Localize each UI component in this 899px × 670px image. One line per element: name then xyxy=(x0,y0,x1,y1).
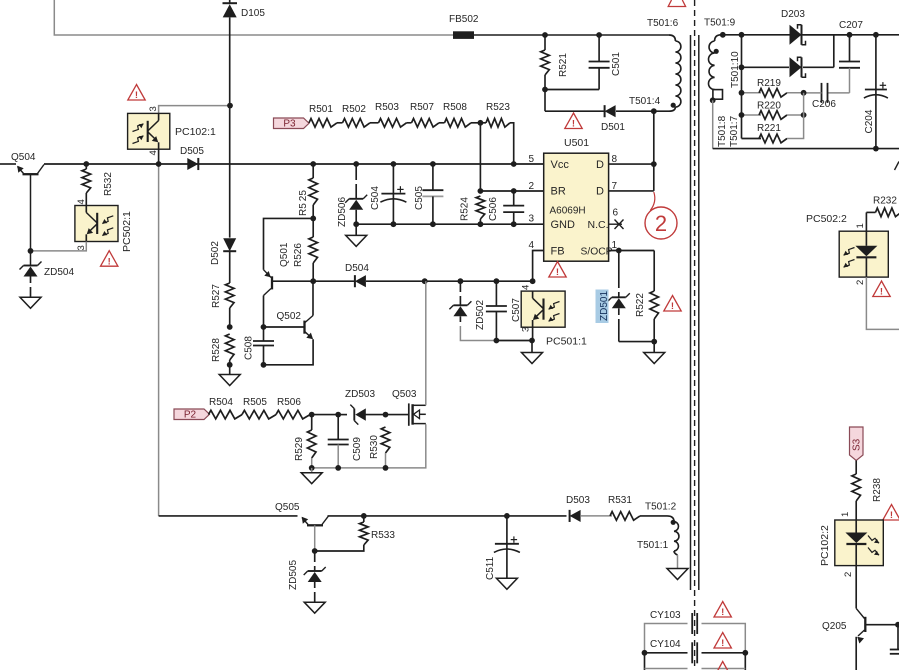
resistor R532 xyxy=(83,161,89,167)
warning triangle bottom partial xyxy=(715,662,730,670)
svg-text:D502: D502 xyxy=(210,241,221,265)
node CY104 right xyxy=(742,650,748,656)
node R533 top xyxy=(361,513,367,519)
node C508 bottom xyxy=(261,362,267,368)
svg-text:!: ! xyxy=(572,119,575,130)
svg-text:T501:9: T501:9 xyxy=(704,18,736,29)
svg-text:C504: C504 xyxy=(370,186,381,210)
ferrite bead FB502 xyxy=(453,31,474,39)
node R523 to Vcc junction xyxy=(511,161,517,167)
wire Q205 base xyxy=(865,624,898,626)
svg-text:R232: R232 xyxy=(873,196,897,207)
svg-text:!: ! xyxy=(721,607,724,618)
warning triangle near D501 xyxy=(565,113,582,128)
wire FB node to ZD502/C507/PC501 xyxy=(460,280,532,282)
resistor R530 xyxy=(381,427,390,453)
winding phase dot T501:2 xyxy=(671,520,676,525)
svg-text:D504: D504 xyxy=(345,263,369,274)
node R527 bottom xyxy=(227,324,233,330)
diode D105 xyxy=(229,0,231,3)
node R524 bottom xyxy=(478,221,484,227)
node C504 bottom xyxy=(391,221,397,227)
svg-text:C206: C206 xyxy=(812,99,836,110)
node C509 bottom xyxy=(335,465,341,471)
node pin8 junction xyxy=(651,161,657,167)
svg-text:2: 2 xyxy=(655,211,667,236)
svg-text:R508: R508 xyxy=(443,102,467,113)
node R220 right xyxy=(801,112,807,118)
svg-text:D505: D505 xyxy=(180,146,204,157)
flag S3 xyxy=(850,427,864,461)
wire R522/ZD501 bottom xyxy=(619,341,654,343)
optocoupler PC102:1 xyxy=(128,113,170,149)
resistor R238 xyxy=(852,474,861,501)
svg-text:ZD505: ZD505 xyxy=(288,560,299,590)
svg-text:PC102:2: PC102:2 xyxy=(819,525,831,566)
svg-text:R523: R523 xyxy=(486,102,510,113)
zener ZD505 xyxy=(314,551,316,562)
svg-text:PC102:1: PC102:1 xyxy=(175,126,216,138)
node Q205 base right xyxy=(895,622,899,628)
resistor R533 xyxy=(363,516,365,522)
capacitor C507 xyxy=(495,281,497,306)
svg-text:4: 4 xyxy=(529,240,535,251)
wire T501:10 vertical xyxy=(741,35,743,139)
wire gate lead Q503 xyxy=(386,414,409,416)
svg-text:!: ! xyxy=(721,638,724,649)
warning triangle top of core xyxy=(668,0,685,7)
svg-text:R524: R524 xyxy=(460,197,471,221)
svg-text:ZD501: ZD501 xyxy=(599,291,610,321)
node R528 bottom xyxy=(227,362,233,368)
svg-text:R501: R501 xyxy=(309,104,333,115)
svg-text:P3: P3 xyxy=(283,119,296,130)
capacitor C508 xyxy=(263,327,265,341)
svg-text:C509: C509 xyxy=(352,437,363,461)
snubber resistor R521 xyxy=(542,32,548,38)
wire tap to D203 lower diode xyxy=(742,66,790,68)
svg-text:D501: D501 xyxy=(601,122,625,133)
ground below ZD504 xyxy=(20,297,41,308)
resistor R525 xyxy=(312,164,314,178)
svg-text:C505: C505 xyxy=(414,186,425,210)
node CY104 left xyxy=(642,650,648,656)
svg-text:C508: C508 xyxy=(244,336,255,360)
node R219 left xyxy=(739,90,745,96)
secondary bottom rail xyxy=(713,148,899,150)
wire U501 pin4 FB xyxy=(533,251,544,282)
callout circle 2 xyxy=(650,192,655,211)
svg-text:C506: C506 xyxy=(488,197,499,221)
svg-text:R221: R221 xyxy=(757,123,781,134)
svg-text:C507: C507 xyxy=(511,298,522,322)
zener ZD506 xyxy=(355,164,357,180)
ground below R522 xyxy=(653,342,655,353)
node ZD503 left junction xyxy=(335,412,341,418)
warning triangle below PC502:2 xyxy=(873,281,890,297)
svg-text:!: ! xyxy=(880,287,883,298)
svg-text:R522: R522 xyxy=(635,293,646,317)
svg-text:T501:7: T501:7 xyxy=(729,115,740,147)
resistor R528 xyxy=(225,334,234,360)
node ZD506 top junction xyxy=(353,161,359,167)
svg-text:3: 3 xyxy=(148,106,159,111)
capacitor C505 xyxy=(432,164,434,190)
svg-text:!: ! xyxy=(556,267,559,278)
flag P3 xyxy=(274,118,310,129)
winding tap square T501:8 xyxy=(713,90,723,100)
svg-text:R528: R528 xyxy=(211,338,222,362)
node R521 bottom xyxy=(542,87,548,93)
wire PC502:2 pin2 xyxy=(866,277,899,329)
svg-text:4: 4 xyxy=(148,150,159,155)
node ZD502 top xyxy=(458,278,464,284)
svg-text:4: 4 xyxy=(521,285,532,290)
node R529 bottom xyxy=(309,465,315,471)
node main rail x159 xyxy=(156,161,162,167)
ground below T501:1 xyxy=(667,569,688,580)
svg-text:5: 5 xyxy=(529,154,535,165)
svg-text:ZD504: ZD504 xyxy=(44,267,74,278)
node R530 bottom xyxy=(383,465,389,471)
optocoupler PC502:2 xyxy=(839,231,888,277)
svg-text:R507: R507 xyxy=(410,102,434,113)
capacitor C506 xyxy=(513,191,515,206)
svg-text:FB: FB xyxy=(551,245,565,257)
svg-text:T501:4: T501:4 xyxy=(629,96,661,107)
node R525 bottom xyxy=(310,216,316,222)
zener ZD501 xyxy=(618,251,620,289)
warning triangle CY104 xyxy=(714,633,731,649)
node ZD503 right junction xyxy=(383,412,389,418)
capacitor C511 xyxy=(504,513,510,519)
svg-text:GND: GND xyxy=(551,219,576,231)
svg-text:Vcc: Vcc xyxy=(551,159,570,171)
svg-text:3: 3 xyxy=(76,245,87,250)
svg-text:D: D xyxy=(596,159,604,171)
node C204 bottom xyxy=(873,146,879,152)
svg-text:T501:1: T501:1 xyxy=(637,540,669,551)
wire PC102:1 pin3 to D105 net xyxy=(159,106,230,114)
wire R525 bottom to Q501 emitter xyxy=(264,218,314,269)
svg-text:D203: D203 xyxy=(781,9,805,20)
transformer core xyxy=(690,35,692,590)
GND rail to U501 pin3 xyxy=(356,223,544,225)
warning triangle near PC102:1 xyxy=(128,85,145,101)
svg-text:R531: R531 xyxy=(608,495,632,506)
svg-text:D503: D503 xyxy=(566,495,590,506)
svg-text:2: 2 xyxy=(529,181,535,192)
capacitor at right edge xyxy=(897,625,899,649)
capacitor C504 xyxy=(392,164,394,194)
flag P2 xyxy=(174,409,210,420)
resistor R529 xyxy=(311,415,313,430)
svg-text:U501: U501 xyxy=(564,137,589,149)
svg-text:3: 3 xyxy=(521,327,532,332)
wire Q505 line xyxy=(159,515,298,517)
warning triangle near PC102:2 xyxy=(883,505,899,521)
capacitor C204 xyxy=(875,35,877,90)
svg-text:PC501:1: PC501:1 xyxy=(546,336,587,348)
svg-text:!: ! xyxy=(135,90,138,101)
ground below R528 xyxy=(229,365,231,375)
svg-text:C207: C207 xyxy=(839,20,863,31)
svg-text:!: ! xyxy=(108,256,111,267)
node R525 top junction xyxy=(310,161,316,167)
wire U501 pin7 xyxy=(609,190,654,192)
node Q501 base junction xyxy=(310,278,316,284)
svg-text:Q503: Q503 xyxy=(392,389,417,400)
wire S3 to R238 xyxy=(855,461,857,475)
node C504 top junction xyxy=(391,161,397,167)
svg-text:T501:6: T501:6 xyxy=(647,18,679,29)
optocoupler PC502:1 xyxy=(75,206,118,242)
svg-text:1: 1 xyxy=(855,223,866,228)
wire U501 pin1 S/OCP xyxy=(609,250,655,252)
BR rail to U501 pin2 xyxy=(480,190,543,192)
wire junction vertical R508 to BR xyxy=(479,123,481,191)
svg-text:R506: R506 xyxy=(277,397,301,408)
svg-text:!: ! xyxy=(671,301,674,312)
svg-text:R504: R504 xyxy=(209,397,233,408)
svg-text:C511: C511 xyxy=(485,556,496,580)
main rail y164 xyxy=(0,163,16,165)
wire frame top-left xyxy=(54,0,453,35)
zener ZD504 xyxy=(24,265,38,267)
node R508/R523 junction xyxy=(478,120,484,126)
capacitor C509 xyxy=(337,415,339,440)
node C505 top junction xyxy=(430,161,436,167)
wire source rail Q503 xyxy=(312,424,426,468)
node Q505 base junction xyxy=(312,548,318,554)
warning triangle below PC502:1 xyxy=(101,251,118,266)
optocoupler PC102:2 xyxy=(835,520,884,566)
svg-text:Q502: Q502 xyxy=(277,311,302,322)
svg-text:R505: R505 xyxy=(243,397,267,408)
node T501:10 top xyxy=(739,32,745,38)
svg-text:CY104: CY104 xyxy=(650,639,681,650)
node T501:10 tap xyxy=(739,64,745,70)
pin6 N.C. stub with X xyxy=(609,223,622,225)
svg-text:R502: R502 xyxy=(342,104,366,115)
node C507 top xyxy=(494,278,500,284)
warning triangle near R522 xyxy=(664,296,681,312)
svg-text:Q505: Q505 xyxy=(275,502,300,513)
node T501:9 top xyxy=(720,32,726,38)
node C204 top xyxy=(873,32,879,38)
node ZD506 bottom xyxy=(353,221,359,227)
svg-text:ZD503: ZD503 xyxy=(345,389,375,400)
node D504/Q503 junction xyxy=(422,278,428,284)
svg-text:ZD506: ZD506 xyxy=(337,197,348,227)
wire C207 to C206 xyxy=(828,92,850,94)
svg-text:PC502:1: PC502:1 xyxy=(121,211,133,252)
svg-text:T501:10: T501:10 xyxy=(730,51,741,88)
node C207 top xyxy=(847,32,853,38)
svg-text:2: 2 xyxy=(855,280,866,285)
resistor R522 xyxy=(653,251,655,292)
svg-text:R529: R529 xyxy=(294,437,305,461)
svg-text:R503: R503 xyxy=(375,102,399,113)
svg-text:3: 3 xyxy=(529,214,535,225)
node Q504 base junction xyxy=(28,248,34,254)
ground below ZD505 xyxy=(304,602,325,613)
svg-text:T501:8: T501:8 xyxy=(717,115,728,147)
wire top rail FB502 to transformer xyxy=(474,34,669,36)
svg-text:C501: C501 xyxy=(611,52,622,76)
svg-text:R532: R532 xyxy=(103,172,114,196)
node R220 left xyxy=(739,112,745,118)
svg-text:PC502:2: PC502:2 xyxy=(806,213,847,225)
svg-text:D: D xyxy=(596,186,604,198)
svg-text:P2: P2 xyxy=(184,410,197,421)
wire secondary top rail xyxy=(723,34,899,36)
svg-text:A6069H: A6069H xyxy=(550,205,586,216)
node R219 right xyxy=(801,90,807,96)
node R506/R529 junction xyxy=(309,412,315,418)
svg-text:BR: BR xyxy=(551,186,566,198)
diode D203 lower xyxy=(790,57,802,77)
wire PC502:1 pin3 to Q504 base xyxy=(31,242,87,251)
wire snubber bottom xyxy=(545,89,599,91)
winding phase dot T501:9 xyxy=(714,49,719,54)
node R524 top junction xyxy=(478,188,484,194)
wire CY third row xyxy=(644,653,646,670)
node C506 top junction xyxy=(511,188,517,194)
node Q502 base junction xyxy=(261,324,267,330)
svg-text:R521: R521 xyxy=(558,53,569,77)
svg-text:D105: D105 xyxy=(241,8,265,19)
svg-text:1: 1 xyxy=(840,512,851,517)
ground below C511 xyxy=(496,578,517,589)
svg-text:4: 4 xyxy=(76,199,87,204)
node C505 bottom xyxy=(430,221,436,227)
svg-text:2: 2 xyxy=(843,572,854,577)
svg-text:S3: S3 xyxy=(852,438,863,451)
svg-text:Q205: Q205 xyxy=(822,621,847,632)
node pin1 junction xyxy=(616,248,622,254)
node junction D105/PC102 xyxy=(227,103,233,109)
node FB junction xyxy=(530,278,536,284)
svg-text:N.C.: N.C. xyxy=(588,219,609,231)
wire T501:8 down to rail xyxy=(712,100,714,148)
svg-text:C204: C204 xyxy=(864,109,875,133)
svg-text:R527: R527 xyxy=(211,284,222,308)
ground below PC501:1 xyxy=(531,341,533,353)
wire lower diode up to rail xyxy=(833,35,835,68)
optocoupler PC501:1 xyxy=(521,291,565,327)
wire PC102:1 pin4 down / long vertical to Q505 line xyxy=(158,149,160,164)
wire U501 pin8 to T501:4 xyxy=(653,111,655,191)
node R522 ground junction xyxy=(651,339,657,345)
zener ZD502 xyxy=(459,281,461,292)
winding phase dot T501:6 xyxy=(671,103,676,108)
warning triangle CY103 xyxy=(714,602,731,618)
node PC501 pin3 junction xyxy=(529,338,535,344)
node square corner xyxy=(710,97,716,103)
snubber capacitor C501 xyxy=(596,32,602,38)
svg-text:ZD502: ZD502 xyxy=(475,300,486,330)
svg-text:R5 25: R5 25 xyxy=(298,190,309,216)
resistor R527 xyxy=(229,251,231,283)
svg-text:CY103: CY103 xyxy=(650,610,681,621)
diode D502 xyxy=(229,237,231,239)
svg-text:FB502: FB502 xyxy=(449,14,479,25)
svg-text:6: 6 xyxy=(613,208,619,219)
wire PC102:2 pin2 to Q205 xyxy=(855,566,857,609)
svg-text:S/OCP: S/OCP xyxy=(581,246,613,257)
resistor R524 xyxy=(476,196,485,219)
slash mark right edge xyxy=(895,162,899,171)
svg-text:R238: R238 xyxy=(872,478,883,502)
ground below ZD506 xyxy=(355,224,357,235)
node T501:4 junction xyxy=(651,108,657,114)
svg-text:!: ! xyxy=(890,510,893,521)
svg-text:T501:2: T501:2 xyxy=(645,502,677,513)
node C507 bottom xyxy=(494,338,500,344)
svg-text:Q504: Q504 xyxy=(11,152,36,163)
ground below R529 xyxy=(311,468,313,473)
svg-text:R533: R533 xyxy=(371,530,395,541)
wire C507 bottom to PC501 pin3 xyxy=(496,340,532,342)
node C506 junctions xyxy=(511,221,517,227)
svg-text:R530: R530 xyxy=(369,435,380,459)
svg-text:R526: R526 xyxy=(293,243,304,267)
warning triangle above PC501:1 xyxy=(549,262,566,278)
svg-text:Q501: Q501 xyxy=(279,242,290,267)
